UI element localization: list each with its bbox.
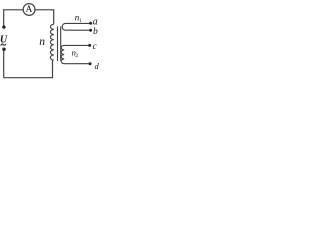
wire ammeter to top-right corner xyxy=(35,9,53,11)
transformer core xyxy=(57,27,59,62)
terminal dot lower (source -) xyxy=(2,47,6,51)
secondary coil n2 xyxy=(61,45,90,63)
svg-text:n: n xyxy=(39,36,45,48)
wire primary bottom lead xyxy=(52,60,54,78)
wire top-right vertical down to primary coil xyxy=(53,9,55,24)
svg-text:d: d xyxy=(95,61,100,71)
primary coil n xyxy=(50,24,53,60)
svg-text:A: A xyxy=(25,5,32,15)
wire bottom horizontal xyxy=(4,77,53,79)
svg-text:c: c xyxy=(93,42,98,52)
secondary coil n1 (hairpin loop) xyxy=(62,23,90,30)
svg-text:b: b xyxy=(93,27,98,37)
wire top-left horizontal xyxy=(4,9,23,11)
terminal b dot xyxy=(89,29,92,32)
terminal d dot xyxy=(89,62,92,65)
terminal c dot xyxy=(88,44,91,47)
tilde AC mark xyxy=(1,44,6,46)
ammeter A1 xyxy=(23,4,35,16)
svg-text:1: 1 xyxy=(79,18,82,24)
svg-text:2: 2 xyxy=(75,53,78,59)
wire left vertical lower xyxy=(3,51,5,78)
terminal dot upper (source +) xyxy=(2,25,5,28)
wire left vertical upper xyxy=(3,9,5,25)
terminal a dot xyxy=(89,22,92,25)
svg-text:a: a xyxy=(93,17,98,28)
